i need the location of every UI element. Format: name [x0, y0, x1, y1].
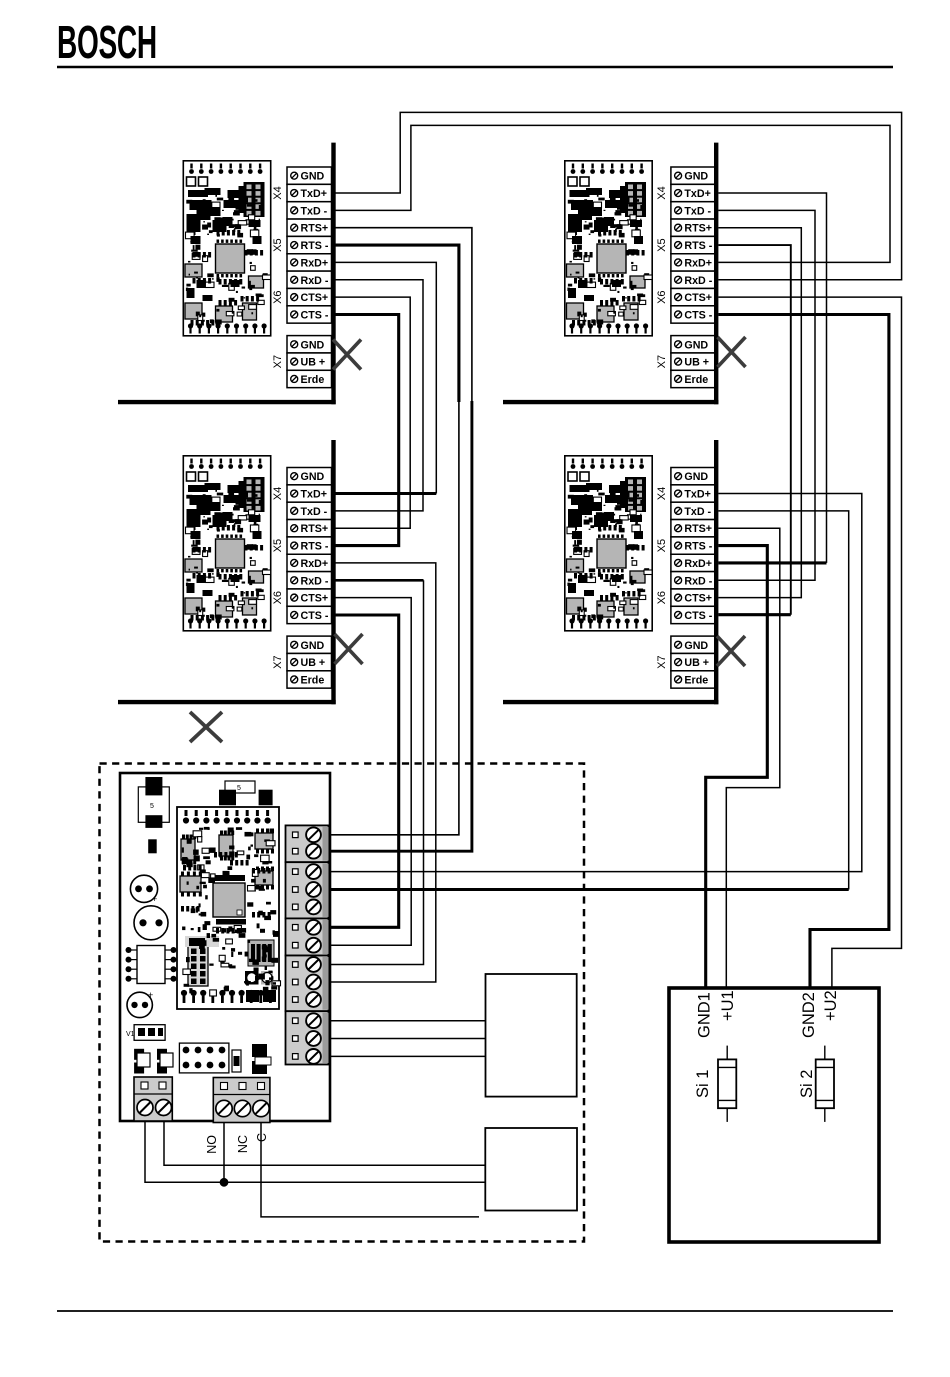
- wire A2 TxD+ to A4 RxD+: [718, 193, 826, 563]
- footer rule: [57, 1310, 893, 1312]
- wire A2 CTS- to GND2 (thick): [718, 315, 889, 989]
- wire A3 RxD- (thick): [336, 579, 424, 582]
- svg-text:+: +: [152, 894, 157, 904]
- svg-text:5: 5: [150, 803, 154, 810]
- capacitor C1 (large): [134, 906, 168, 940]
- wire A1 RxD- to A3 TxD-: [336, 280, 424, 511]
- wire A3 RxD- to terminal D1: [329, 580, 424, 964]
- module A2 (top-right) PCB: [565, 161, 652, 336]
- component F1 (black pad): [148, 839, 157, 853]
- label NO: [205, 1135, 219, 1154]
- component M6: [232, 1050, 241, 1072]
- label GND2: [800, 992, 818, 1038]
- wire A4 CTS- (thick): [718, 613, 790, 616]
- svg-text:+U1: +U1: [719, 990, 737, 1021]
- header H1: [179, 1043, 229, 1073]
- module A3 (mid-left) terminal strip X4 X5 X6 X7: [272, 468, 332, 689]
- svg-text:+: +: [148, 990, 153, 1000]
- label GND1: [696, 992, 714, 1038]
- wire A1 TxD- to A2 RxD+ (top loop inner): [336, 125, 891, 262]
- module A1 (top-left) X cross (not connected mark): [333, 340, 361, 370]
- wire A4 TxD- riser: [718, 511, 848, 890]
- module A2 (top-right) X cross (not connected mark): [718, 337, 746, 367]
- varistors V2 V3: [134, 1049, 173, 1074]
- svg-text:C: C: [255, 1133, 269, 1142]
- relay terminal block X8 (2-pole): [134, 1077, 172, 1121]
- wire A4 TxD- to terminal B2 (thick): [329, 888, 849, 891]
- capacitor C3: [127, 990, 153, 1018]
- svg-text:Si 1: Si 1: [694, 1070, 712, 1098]
- standalone X cross below mid-left module: [190, 712, 222, 742]
- wire A3 CTS+ to terminal C2: [329, 598, 411, 946]
- module A2 (top-right) terminal strip X4 X5 X6 X7: [656, 167, 716, 388]
- svg-text:Si 2: Si 2: [798, 1070, 816, 1098]
- wire A1 RTS+ down: [336, 228, 472, 402]
- wire A4 TxD+ to terminal B1: [329, 494, 862, 872]
- power supply unit box: [669, 988, 879, 1242]
- label Si 1: [694, 1070, 712, 1098]
- fuse Si 2: [816, 1046, 834, 1122]
- module A1 (top-left) mounting rail (thick edge): [118, 143, 336, 405]
- wire A1 TxD+ to A2 RxD- (top loop outer): [336, 112, 902, 279]
- wire A4 RTS+ to +U1: [718, 528, 779, 988]
- label +U1: [719, 990, 737, 1021]
- external device box 2: [485, 1128, 577, 1211]
- svg-text:V1: V1: [126, 1031, 135, 1038]
- module A3 (mid-left) PCB: [183, 456, 270, 631]
- label C: [255, 1133, 269, 1142]
- dashed enclosure (controller housing): [100, 764, 585, 1242]
- module A4 (mid-right) mounting rail (thick edge): [503, 440, 718, 704]
- wire A1 RTS- upper (thick): [336, 245, 459, 402]
- wire relay C: [261, 1121, 479, 1217]
- capacitor C2: [130, 875, 157, 904]
- wire relay NO to junction: [223, 1121, 225, 1182]
- wire relay left-2 to box2: [164, 1121, 485, 1165]
- jumper V1: [126, 1025, 165, 1041]
- wire A4 RxD+ (thick): [718, 561, 826, 564]
- wire A2 TxD- to A4 RxD-: [718, 210, 815, 580]
- transformer TR1 (top-left black pads): [138, 777, 169, 828]
- external device box 1: [486, 974, 577, 1097]
- central processor PCB: [177, 807, 281, 1009]
- svg-text:GND1: GND1: [696, 992, 714, 1038]
- wire A1 RTS- to terminal A1row: [329, 401, 459, 835]
- module A4 (mid-right) X cross (not connected mark): [717, 636, 745, 666]
- svg-text:5: 5: [237, 785, 241, 792]
- svg-text:NO: NO: [205, 1135, 219, 1154]
- pads V6 V7: [246, 990, 276, 1074]
- module A1 (top-left) PCB: [183, 161, 270, 336]
- label +U2: [822, 990, 840, 1021]
- svg-text:GND2: GND2: [800, 992, 818, 1038]
- module A3 (mid-left) X cross (not connected mark): [335, 634, 363, 664]
- relay contact block (NO NC C): [213, 1078, 270, 1123]
- wire terminal E3 to box1: [329, 1055, 486, 1057]
- wire A2 RTS- to A4 CTS-: [718, 245, 790, 615]
- central terminal strip X1: [286, 825, 329, 1064]
- wire A1 CTS- to A3 RTS- (thick): [336, 315, 399, 546]
- module A1 (top-left) terminal strip X4 X5 X6 X7: [272, 167, 332, 388]
- wire A2 RTS+ to A4 CTS+: [718, 228, 801, 598]
- svg-text:NC: NC: [236, 1135, 250, 1153]
- wire relay left-1 to box2: [145, 1121, 485, 1182]
- wire A1 CTS+ to A3 RTS+: [336, 297, 411, 528]
- central controller board outline: [120, 773, 330, 1121]
- junction dot NO wire: [220, 1178, 229, 1187]
- wire terminal E1 to box1: [329, 1020, 486, 1022]
- top-center pads: [219, 781, 273, 805]
- module A4 (mid-right) PCB: [565, 456, 652, 631]
- svg-text:BOSCH: BOSCH: [57, 18, 157, 69]
- wire A1 RxD+ to A3 TxD+: [336, 262, 437, 493]
- wire A4 RTS- to GND1 (thick): [706, 546, 768, 988]
- wire A3 TxD+ (thick): [336, 492, 437, 495]
- label Si 2: [798, 1070, 816, 1098]
- module A4 (mid-right) terminal strip X4 X5 X6 X7: [656, 468, 716, 689]
- header rule: [57, 66, 893, 68]
- BOSCH logo: [57, 18, 157, 69]
- module A2 (top-right) mounting rail (thick edge): [503, 143, 718, 405]
- module A3 (mid-left) mounting rail (thick edge): [118, 440, 336, 704]
- wire A2 CTS+ to +U2: [718, 297, 901, 988]
- wire A3 CTS- to terminal C1 (thick): [329, 615, 399, 927]
- IC L1 (DIP-8): [126, 946, 177, 984]
- wire terminal E2 to box1: [329, 1038, 486, 1040]
- wire A1 RTS+ lower (thick): [329, 401, 472, 851]
- fuse Si 1: [718, 1046, 736, 1122]
- svg-text:+U2: +U2: [822, 990, 840, 1021]
- label NC: [236, 1135, 250, 1153]
- wire A3 RxD+ to terminal D2: [329, 563, 436, 982]
